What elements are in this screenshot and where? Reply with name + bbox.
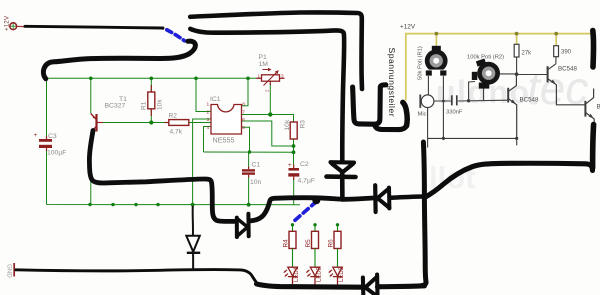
svg-text:1: 1 [207,101,210,107]
op IC1 NE555 [207,96,246,145]
transistor Q3 BC548 [585,89,594,148]
transistor Q2 BC548 [548,64,586,105]
svg-text:R4: R4 [283,239,290,248]
svg-text:LED1: LED1 [294,266,300,282]
svg-text:+12V: +12V [4,15,11,31]
svg-text:100µF: 100µF [47,150,66,157]
wire 27k bottom to node [516,57,518,74]
capacitor 330nF [446,95,463,115]
svg-text:BC327: BC327 [105,103,126,110]
svg-text:5: 5 [242,125,245,131]
wire marker right vertical lower segment [593,125,594,169]
wire marker right vertical top segment [590,31,596,68]
diode marker right-pointing [237,214,249,237]
wire C1 top stub [248,152,251,167]
wire marker top line lower [190,29,344,161]
diode D1 thin hand-drawn [186,206,200,270]
svg-text:3: 3 [281,74,284,79]
terminal +12V [4,15,25,31]
transistor T1 BC327 [91,114,103,133]
transistor Q1 BC548 [508,76,517,138]
wire marker diode to upper row [251,198,373,221]
wire +12V yellow bus [406,34,594,101]
wire pin2 net [196,78,211,111]
svg-text:6: 6 [242,117,245,123]
resistor R5 [305,223,319,267]
watermark text [429,62,588,195]
wire R1 bottom [150,109,152,123]
capacitor C2 [288,161,315,185]
svg-text:27k: 27k [522,51,533,57]
wire node to base T2 [517,74,548,76]
svg-text:10k: 10k [284,119,291,130]
svg-text:P1: P1 [259,54,268,61]
wire C3 column [46,78,48,138]
wire marker to vertical [391,197,423,198]
svg-text:330nF: 330nF [446,110,463,116]
svg-text:4,7k: 4,7k [170,129,183,136]
svg-text:+: + [34,132,38,139]
resistor 390 [554,46,572,57]
resistor R2 [165,113,189,136]
svg-text:C1: C1 [252,162,261,169]
wire T1 emitter [90,78,92,113]
svg-text:C2: C2 [300,161,309,168]
svg-text:GND: GND [5,264,12,278]
wire mic row [434,100,451,102]
svg-text:R1: R1 [141,101,148,110]
svg-text:BC548: BC548 [558,66,577,73]
svg-text:50k Poti (R1): 50k Poti (R1) [418,46,424,80]
wire R2 right to IC [189,122,211,124]
wire blue dashed to R4 [292,202,317,224]
svg-text:1: 1 [258,74,261,79]
resistor R1 [141,85,164,116]
svg-text:1M: 1M [259,61,269,68]
diode marker bottom left-pointing [363,275,378,295]
resistor R3 [284,119,307,139]
resistor R6 [328,223,342,267]
svg-text:R3: R3 [300,120,307,129]
capacitor C3 [34,132,67,157]
svg-text:390: 390 [561,50,572,56]
resistor 27k [514,44,532,57]
wire marker T1 chain [89,131,234,222]
wire pot R2 right to node [500,73,517,75]
wire pin6 net [242,121,294,146]
wire marker long vertical right [421,142,426,286]
svg-text:R5: R5 [305,239,312,248]
diode marker left-pointing mid [375,185,389,212]
wire pin3 net down to bottom bus [193,119,211,205]
LED3 [328,267,342,287]
wire marker bottom bus [257,284,363,287]
wire pin5/C1 column [242,127,250,152]
wire marker branch to far right [425,163,593,197]
node marker blob [312,196,320,204]
svg-text:3: 3 [207,117,210,123]
potentiometer P1 1M [256,54,285,92]
wire base line T1-R1-R2 [103,122,169,124]
wire C2 bottom [293,180,295,205]
wire C1 bottom [248,177,250,205]
wire marker top line upper [190,12,362,89]
potentiometer R1 50k pot [418,46,448,80]
wire pin8 net [242,78,248,106]
svg-text:+12V: +12V [400,24,416,31]
wire +12V top bus [47,77,257,80]
wire blue dashed top [167,30,185,41]
svg-text:R2: R2 [169,113,178,120]
microphone Mic [418,95,434,118]
node dots yellow bus [435,32,559,36]
node dots right [442,72,519,140]
svg-text:R6: R6 [328,239,335,248]
svg-text:NE555: NE555 [213,136,235,145]
svg-text:2: 2 [207,110,210,116]
wires right schematic gray [428,57,556,148]
svg-text:4,7µF: 4,7µF [298,178,316,185]
wire pot R1 right tab down to rail [442,76,444,139]
wire R1 top [150,78,152,92]
wire pot R2 bottom down [483,89,485,101]
capacitor C1 [242,162,262,187]
svg-text:LED3: LED3 [339,266,345,282]
svg-text:+: + [288,162,292,169]
wire thin from +12V terminal [25,26,164,29]
wire marker hook to left bus [43,41,195,79]
wire marker U to mic [375,125,407,130]
svg-text:Spannungsteiler: Spannungsteiler [387,48,397,118]
wire mic bottom [427,108,429,139]
potentiometer R2 100k pot [467,55,504,89]
LED2 [306,267,320,287]
svg-text:10k: 10k [157,99,164,110]
wire cap junction up to pot R2 left [469,82,475,101]
wire output row y152 [204,151,294,153]
wire bottom rail [428,137,517,139]
wire P1 wiper down [269,84,271,115]
svg-text:8: 8 [242,101,245,107]
svg-text:Mic: Mic [418,112,427,118]
svg-text:7: 7 [242,110,245,116]
wire pin4 net [204,127,212,153]
wire marker box Spannungsteiler [353,85,386,124]
svg-text:LED2: LED2 [316,266,322,282]
wire GND thin bus [16,270,258,284]
svg-text:2: 2 [265,89,270,92]
svg-text:10n: 10n [250,179,262,186]
resistor R4 with LED column dots [283,223,297,267]
wire T1 collector to bottom bus [90,133,92,205]
svg-text:100k Poti (R2): 100k Poti (R2) [467,55,504,61]
wire 390 bottom [555,57,557,64]
svg-text:B: B [597,104,600,111]
terminal GND [5,263,14,278]
diode big marker down [327,162,356,199]
svg-text:4: 4 [207,125,210,131]
LED1 [283,267,297,287]
svg-text:C3: C3 [48,133,57,140]
wire pin7 net to R3 [242,115,294,123]
wire pot R1 left tab down to mic [427,76,429,96]
svg-text:IC1: IC1 [210,96,221,103]
junction dots left schematic [88,77,295,207]
wire R3 bottom chain [293,139,295,165]
svg-text:BC548: BC548 [520,97,539,104]
